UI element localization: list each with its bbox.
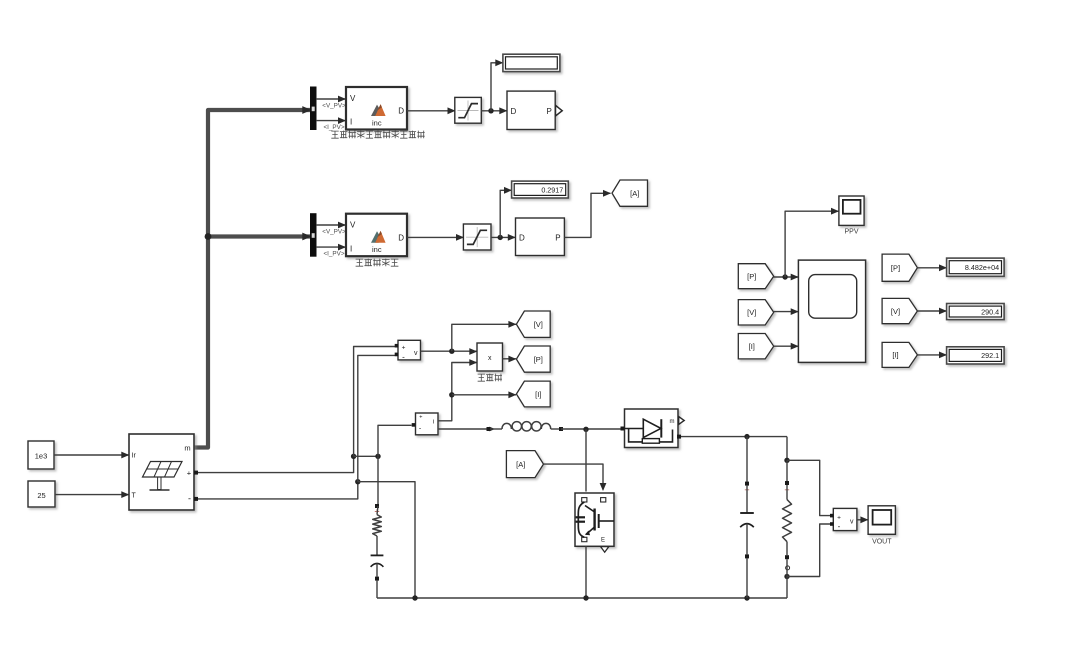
- port chevron diode m out: [679, 417, 685, 425]
- scope multi-signal block: [798, 260, 865, 362]
- junction m-bus branch: [205, 233, 212, 240]
- port square Vmeas1 minus: [395, 353, 399, 357]
- arrowhead into display I: [939, 352, 947, 359]
- arrowhead into display1: [495, 59, 503, 66]
- svg-text:-: -: [838, 522, 841, 531]
- wire Vmeas2 to scope VOUT: [857, 519, 868, 521]
- junction row1 branch: [488, 108, 493, 113]
- arrowhead V input fcn1: [338, 96, 346, 103]
- svg-text:I: I: [350, 244, 352, 253]
- svg-text:292.1: 292.1: [981, 351, 999, 360]
- svg-text:v: v: [850, 518, 854, 525]
- wire PV plus rail: [198, 456, 354, 472]
- diode block: [625, 409, 679, 448]
- arrowhead into Ir: [121, 452, 129, 459]
- wire from A to IGBT gate: [544, 464, 603, 489]
- port square Imeas plus: [412, 423, 416, 427]
- arrowhead into subsystem2 D: [508, 234, 516, 241]
- junction PPV branch: [782, 274, 787, 279]
- wire cap top lead: [746, 437, 748, 484]
- junction B plus rail: [375, 454, 380, 459]
- svg-text:[P]: [P]: [891, 264, 900, 273]
- from tag A gate signal: [506, 451, 543, 478]
- voltage measurement V_PV block: [398, 340, 421, 360]
- goto tag I: [516, 381, 550, 407]
- arrowhead into goto I: [508, 391, 516, 398]
- wire Bus1 I_PV out: [316, 120, 346, 122]
- capacitor C output: [746, 486, 748, 513]
- wire top rail corner to load: [786, 437, 788, 461]
- wire junctionA to junctionB: [354, 455, 378, 457]
- svg-text:P: P: [546, 107, 551, 116]
- product block P=V*I: [477, 343, 503, 371]
- arrowhead into saturation1: [448, 107, 456, 114]
- wire PV minus rail: [198, 482, 358, 499]
- port square snubber top: [375, 504, 379, 508]
- arrowhead into product in2: [469, 359, 477, 366]
- MATLAB Function block inc1: [346, 87, 407, 130]
- port square diode left: [621, 427, 625, 431]
- svg-text:0.2917: 0.2917: [541, 185, 563, 194]
- port square PV plus: [194, 471, 198, 475]
- svg-text:D: D: [398, 107, 404, 116]
- port square load top: [785, 481, 789, 485]
- label chinese fcn2 caption: [356, 259, 364, 266]
- wire plus tap to Vmeas2: [787, 460, 831, 515]
- scope PPV block: [839, 196, 864, 225]
- port chevron subsystem1 P out: [556, 105, 563, 116]
- display V value: [947, 304, 1005, 320]
- wire minus rail up to Vmeas: [358, 355, 398, 481]
- wire fcn2 D to saturation2: [407, 236, 463, 238]
- svg-text:Ir: Ir: [132, 453, 137, 460]
- arrowhead into goto V: [508, 321, 516, 328]
- display I value: [947, 347, 1005, 364]
- goto tag P: [516, 346, 550, 372]
- wire i to goto I: [452, 394, 516, 396]
- svg-text:D: D: [511, 107, 517, 116]
- port square inductor right: [559, 427, 563, 431]
- svg-text:[V]: [V]: [747, 308, 756, 317]
- arrowhead into scope VOUT: [860, 516, 868, 523]
- wire 1e3 to Ir: [54, 454, 129, 456]
- wire v up to goto V: [452, 324, 516, 351]
- arrowhead into bus selector 1: [302, 106, 311, 114]
- wire Bus2 I_PV out: [316, 246, 346, 248]
- resistor Rsnub: [373, 515, 382, 536]
- svg-text:PPV: PPV: [844, 229, 858, 236]
- red polarity mark load: [785, 488, 789, 492]
- port square Vmeas2 minus: [830, 522, 834, 526]
- wire from V to display: [917, 310, 946, 312]
- voltage measurement VOUT block: [833, 508, 857, 530]
- wire bottom rail: [377, 597, 787, 599]
- svg-text:<V_PV>: <V_PV>: [322, 228, 346, 235]
- junction diode-IGBT node: [583, 427, 588, 432]
- saturation block Sat2: [463, 224, 491, 250]
- svg-text:290.4: 290.4: [981, 307, 999, 316]
- svg-text:m: m: [670, 419, 675, 425]
- port square cap bottom: [745, 554, 749, 558]
- MATLAB Function block inc2: [346, 214, 407, 257]
- wire from P to display: [917, 267, 946, 269]
- wire inductor to diode: [561, 428, 623, 430]
- IGBT block: [575, 493, 614, 546]
- arrowhead scope in2: [791, 308, 799, 315]
- port square inductor left: [487, 427, 491, 431]
- svg-text:-: -: [402, 353, 405, 362]
- from tag P display: [882, 254, 917, 281]
- arrowhead into goto A: [603, 190, 611, 197]
- icon MATLAB logo fcn1: [371, 105, 381, 116]
- arrowhead I input fcn1: [338, 117, 346, 124]
- label chinese fcn1 caption: [331, 131, 338, 138]
- wire Bus1 V_PV out: [316, 98, 346, 100]
- arrowhead into product in1: [469, 348, 477, 355]
- svg-text:[A]: [A]: [516, 460, 525, 469]
- svg-text:inc: inc: [372, 118, 382, 127]
- junction v signal: [449, 349, 454, 354]
- svg-text:D: D: [519, 234, 525, 243]
- arrowhead down into IGBT gate: [600, 483, 607, 491]
- svg-text:m: m: [184, 444, 190, 453]
- wire minus tap to Vmeas2: [787, 524, 831, 577]
- port square PV minus: [194, 497, 198, 501]
- svg-text:I: I: [350, 118, 352, 127]
- svg-text:[I]: [I]: [535, 390, 541, 399]
- port chevron IGBT m out: [601, 547, 609, 553]
- arrowhead into saturation2: [456, 234, 464, 241]
- wire 25 to T: [55, 494, 129, 496]
- arrowhead into bus selector 2: [302, 233, 311, 241]
- junction load bottom tap: [784, 574, 789, 579]
- arrowhead scope in3: [791, 343, 799, 350]
- junction row2 branch: [498, 235, 503, 240]
- svg-text:VOUT: VOUT: [872, 539, 892, 546]
- wire snubber to bottom rail: [376, 581, 378, 598]
- from tag I scope: [738, 334, 773, 359]
- wire fcn1 D to saturation1: [407, 110, 455, 112]
- arrowhead into display2: [504, 187, 512, 194]
- svg-text:+: +: [837, 514, 841, 521]
- svg-text:[A]: [A]: [630, 189, 639, 198]
- arrowhead V input fcn2: [338, 222, 346, 229]
- junction A plus rail: [351, 454, 356, 459]
- arrowhead small before inductor: [489, 427, 495, 432]
- wire load lead2: [786, 485, 788, 500]
- port square Vmeas2 plus: [830, 514, 834, 518]
- svg-text:i: i: [433, 419, 434, 426]
- constant block 25: [28, 481, 55, 507]
- svg-text:<I_PV>: <I_PV>: [323, 250, 344, 257]
- arrowhead into PPV scope: [831, 208, 839, 215]
- capacitor Csnub: [371, 554, 384, 556]
- scope VOUT block: [868, 506, 895, 535]
- arrowhead scope in1: [791, 274, 799, 281]
- junction bottom capacitor: [744, 595, 749, 600]
- wire snubber mid lead: [376, 536, 378, 555]
- wire branch up to display2: [500, 190, 511, 237]
- svg-text:V: V: [350, 94, 356, 103]
- PV array block: [129, 434, 194, 510]
- wire node down to IGBT collector: [585, 429, 587, 491]
- wire branch up to display1: [491, 63, 503, 111]
- display P value: [947, 258, 1005, 276]
- wire from V to scope: [774, 311, 799, 313]
- wire thick branch to bus selector 2: [208, 234, 311, 238]
- svg-text:[I]: [I]: [749, 342, 755, 351]
- svg-text:E: E: [601, 538, 605, 544]
- wire diode cathode to top rail: [681, 436, 787, 438]
- subsystem block D-P row2: [516, 218, 565, 256]
- arrowhead into goto P: [508, 356, 516, 363]
- svg-text:<I_PV>: <I_PV>: [323, 124, 344, 131]
- wire snubber top lead: [377, 506, 378, 515]
- wire minus rail to bottom bus: [358, 482, 415, 598]
- arrowhead into T: [121, 491, 129, 498]
- resistor R load: [783, 500, 792, 542]
- wire load to bottom rail: [786, 559, 788, 598]
- wire saturation1 out: [481, 110, 507, 112]
- svg-text:T: T: [132, 492, 137, 499]
- inductor L: [490, 428, 502, 430]
- junction C minus rail: [355, 479, 360, 484]
- svg-text:8.482e+04: 8.482e+04: [965, 263, 999, 272]
- svg-text:+: +: [187, 468, 192, 477]
- wire junctionB up to current meas: [378, 425, 412, 456]
- goto tag V: [516, 311, 550, 337]
- svg-text:<V_PV>: <V_PV>: [322, 102, 346, 109]
- from tag V scope: [738, 300, 773, 325]
- svg-text:[P]: [P]: [534, 355, 543, 364]
- svg-text:+: +: [402, 345, 406, 352]
- svg-text:+: +: [419, 415, 422, 421]
- wire Bus2 V_PV out: [316, 224, 346, 226]
- junction capacitor top: [744, 434, 749, 439]
- subsystem block D-P row1: [507, 91, 555, 129]
- junction i signal: [449, 392, 454, 397]
- junction bottom IGBT: [583, 595, 588, 600]
- svg-text:25: 25: [37, 491, 45, 500]
- svg-text:P: P: [555, 234, 560, 243]
- label chinese product caption: [478, 374, 485, 381]
- from tag I display: [882, 342, 917, 367]
- junction bottom minus bus: [412, 595, 417, 600]
- wire plus rail up to Vmeas: [354, 347, 398, 457]
- arrowhead I input fcn2: [338, 244, 346, 251]
- svg-text:[V]: [V]: [891, 307, 900, 316]
- wire Vmeas1 v out: [421, 350, 478, 352]
- svg-text:[V]: [V]: [534, 320, 543, 329]
- wire from P to scope: [774, 276, 799, 278]
- wire cap bottom lead: [746, 558, 748, 598]
- svg-text:-: -: [188, 493, 191, 503]
- port square diode right: [677, 435, 681, 439]
- svg-text:inc: inc: [372, 245, 382, 254]
- wire junctionB down to snubber: [377, 456, 379, 506]
- saturation block Sat1: [455, 97, 482, 123]
- wire from I to display: [917, 354, 946, 356]
- wire from I to scope: [774, 345, 799, 347]
- wire current meas to inductor: [438, 428, 489, 430]
- red polarity mark capacitor: [745, 488, 749, 492]
- port square snubber bottom: [375, 577, 379, 581]
- junction load top tap: [784, 458, 789, 463]
- bus selector Bus1: [311, 87, 317, 130]
- icon MATLAB logo fcn2: [371, 231, 381, 242]
- wire load bottom lead: [786, 542, 788, 556]
- current measurement I_PV block: [416, 413, 439, 435]
- bus selector Bus2: [311, 214, 317, 257]
- port square Vmeas1 plus: [395, 344, 399, 348]
- wire IGBT emitter to bottom rail: [585, 546, 587, 598]
- from tag P scope: [738, 264, 773, 289]
- wire i signal out: [438, 363, 477, 421]
- svg-text:[P]: [P]: [747, 272, 756, 281]
- arrowhead into display V: [939, 308, 947, 315]
- circle load port mark: [786, 566, 790, 570]
- from tag V display: [882, 298, 917, 323]
- wire product out to goto P: [503, 358, 517, 360]
- arrowhead into display P: [939, 264, 947, 271]
- port square cap top: [745, 482, 749, 486]
- display Display1 empty: [503, 54, 560, 71]
- wire branch to PPV scope: [785, 211, 838, 277]
- svg-text:V: V: [350, 221, 356, 230]
- red polarity mark snubber: [375, 509, 379, 513]
- arrowhead into subsystem1 D: [499, 107, 507, 114]
- display Display2 value 0.2917: [512, 181, 569, 198]
- svg-text:[I]: [I]: [892, 351, 898, 360]
- svg-text:v: v: [414, 350, 418, 357]
- svg-text:D: D: [398, 233, 404, 242]
- svg-text:x: x: [488, 355, 492, 362]
- port square load bottom: [785, 555, 789, 559]
- goto tag A duty: [612, 180, 648, 206]
- wire subsystem2 P to goto A: [564, 193, 610, 237]
- wire load top lead: [786, 460, 788, 483]
- constant block 1e3: [28, 441, 54, 469]
- wire thick m-bus from PV array to bus selectors: [194, 110, 311, 448]
- svg-text:1e3: 1e3: [35, 452, 48, 461]
- wire saturation2 out: [491, 236, 516, 238]
